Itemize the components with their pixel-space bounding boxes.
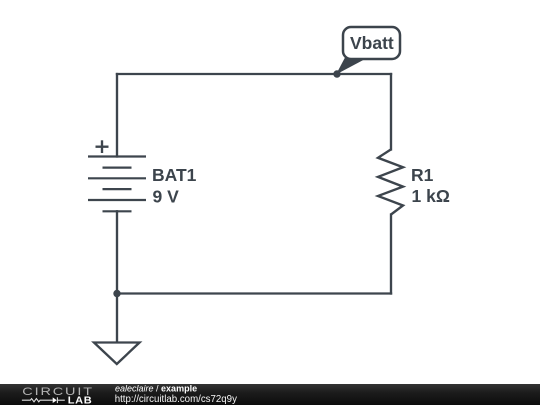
logo diode triangle [53, 397, 57, 403]
battery BAT1 plates [88, 157, 146, 212]
svg-text:R1: R1 [411, 165, 434, 185]
CircuitLab logo [0, 384, 110, 405]
wire battery- down to bottom junction [116, 211, 118, 293]
wire bottom net horizontal [117, 292, 391, 294]
footer bar [0, 384, 540, 405]
ground [94, 343, 140, 365]
wire top net Vbatt horizontal [117, 73, 391, 75]
battery plus sign [96, 146, 109, 148]
svg-text:http://circuitlab.com/cs72q9y: http://circuitlab.com/cs72q9y [115, 394, 237, 405]
svg-text:1 kΩ: 1 kΩ [412, 186, 450, 206]
wire top-right corner down to resistor R1 top [390, 74, 392, 149]
node Vbatt callout box [343, 27, 400, 59]
node Vbatt dot [333, 70, 340, 77]
svg-text:BAT1: BAT1 [152, 165, 197, 185]
svg-text:Vbatt: Vbatt [350, 33, 394, 53]
wire junction down to ground [116, 294, 118, 343]
wire battery+ up to top-left corner [116, 74, 118, 157]
wire resistor R1 bottom down to bottom-right corner [390, 215, 392, 294]
svg-text:ealeclaire / example: ealeclaire / example [115, 384, 197, 394]
resistor R1 zigzag [378, 149, 403, 214]
node Vbatt callout tail [336, 58, 368, 75]
logo resistor zigzag and diode wires [22, 397, 65, 403]
svg-text:9 V: 9 V [153, 187, 180, 207]
node junction dot bottom [113, 290, 120, 297]
footer credit lines [0, 384, 300, 405]
